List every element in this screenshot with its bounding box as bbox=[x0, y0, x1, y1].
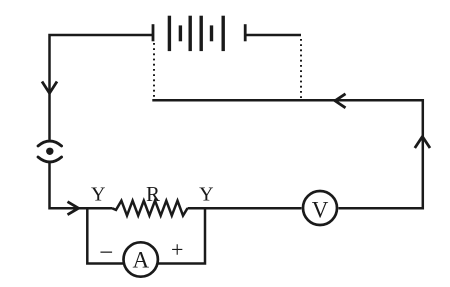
svg-text:V: V bbox=[312, 197, 329, 222]
svg-text:R: R bbox=[146, 182, 160, 206]
svg-text:Y: Y bbox=[199, 183, 213, 205]
svg-text:−: − bbox=[99, 239, 113, 266]
svg-text:Y: Y bbox=[91, 184, 105, 206]
svg-text:+: + bbox=[171, 237, 183, 262]
svg-text:A: A bbox=[132, 248, 149, 273]
